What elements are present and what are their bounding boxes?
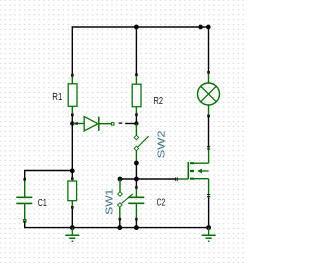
ground GND2 [202, 228, 216, 242]
resistor R2 [132, 73, 141, 123]
wire: gate net horizontal [120, 178, 176, 180]
resistor R3 (unlabeled) [68, 171, 77, 228]
switch SW1 [118, 179, 133, 228]
wire: C1 top net to column A [25, 171, 73, 181]
resistor R1 [68, 74, 77, 116]
wire: R2 top to supply net [135, 27, 137, 75]
junction: gate net at C2 column [134, 177, 139, 182]
svg-text:R1: R1 [52, 92, 62, 103]
svg-text:C2: C2 [157, 198, 166, 209]
svg-text:SW1: SW1 [105, 188, 116, 215]
svg-text:C1: C1 [38, 198, 47, 209]
junction: ground net at R3 [70, 225, 75, 230]
capacitor C2 [128, 186, 144, 227]
junction: top net near right corner [198, 25, 203, 30]
switch SW2 [134, 124, 149, 164]
wire: top net right vertical down to lamp [208, 26, 210, 72]
wire: top supply net horizontal [72, 26, 208, 28]
junction: top net at R2 column [134, 25, 139, 30]
wire: lamp bottom to MOSFET drain [208, 116, 210, 147]
wire: dashed net from diode cathode to R2/SW2 node [119, 122, 123, 124]
junction: column A top node [70, 168, 75, 173]
wire: R1 bottom to diode-anode junction [71, 115, 73, 124]
wire: top net left vertical down to R1 [71, 26, 73, 75]
junction: ground net at C2 [134, 225, 139, 230]
svg-text:R2: R2 [154, 96, 164, 107]
junction: R2 bottom / SW2 top node [134, 121, 138, 125]
wire: MOSFET source down to ground net [208, 197, 210, 227]
svg-text:SW2: SW2 [156, 130, 167, 159]
junction: SW2 bottom node [134, 161, 139, 166]
wire: diode junction down to column A node [71, 124, 73, 172]
junction: ground net right end [206, 225, 211, 230]
ground GND1 [65, 228, 79, 242]
junction: gate net at SW1 [118, 177, 123, 182]
junction: ground net at SW1 [117, 225, 122, 230]
wire: bottom ground net horizontal [25, 221, 209, 228]
wire: SW2 bottom to gate net [135, 163, 137, 188]
lamp LP1 [198, 71, 220, 117]
transistor Q1 n-channel MOSFET [176, 147, 211, 198]
junction: top net right corner [206, 25, 211, 30]
capacitor C1 [16, 178, 32, 222]
diode D1 [73, 117, 114, 131]
junction: diode anode node [70, 121, 74, 125]
